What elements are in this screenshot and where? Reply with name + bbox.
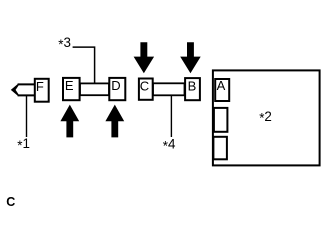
svg-text:*1: *1 [17, 136, 30, 153]
svg-text:D: D [111, 78, 120, 93]
connector slot 3 [213, 137, 227, 160]
svg-text:*3: *3 [58, 35, 71, 52]
down arrow above B [180, 42, 201, 73]
link C-B [153, 83, 185, 95]
connector D [109, 78, 125, 100]
svg-text:F: F [36, 79, 44, 94]
svg-text:C: C [6, 195, 15, 209]
svg-text:B: B [188, 78, 197, 93]
label *3 leader line [73, 47, 95, 83]
connector C [139, 79, 153, 100]
svg-text:*2: *2 [259, 109, 272, 126]
ECU box *2 [213, 70, 320, 165]
wire to *4 [170, 95, 172, 137]
connector B [185, 78, 200, 100]
svg-text:A: A [217, 78, 226, 93]
svg-text:E: E [65, 78, 74, 93]
down arrow above C [134, 42, 155, 73]
connector A [215, 79, 229, 101]
connector flag F (harness symbol) [18, 83, 36, 85]
svg-text:*4: *4 [163, 137, 176, 154]
link E-D [80, 83, 109, 95]
connector F [35, 79, 49, 102]
up arrow under D [105, 105, 124, 138]
connector slot 2 [214, 108, 228, 132]
svg-text:C: C [140, 78, 149, 93]
connector E [63, 78, 80, 100]
wire [26, 95, 28, 137]
up arrow under E [60, 105, 79, 138]
